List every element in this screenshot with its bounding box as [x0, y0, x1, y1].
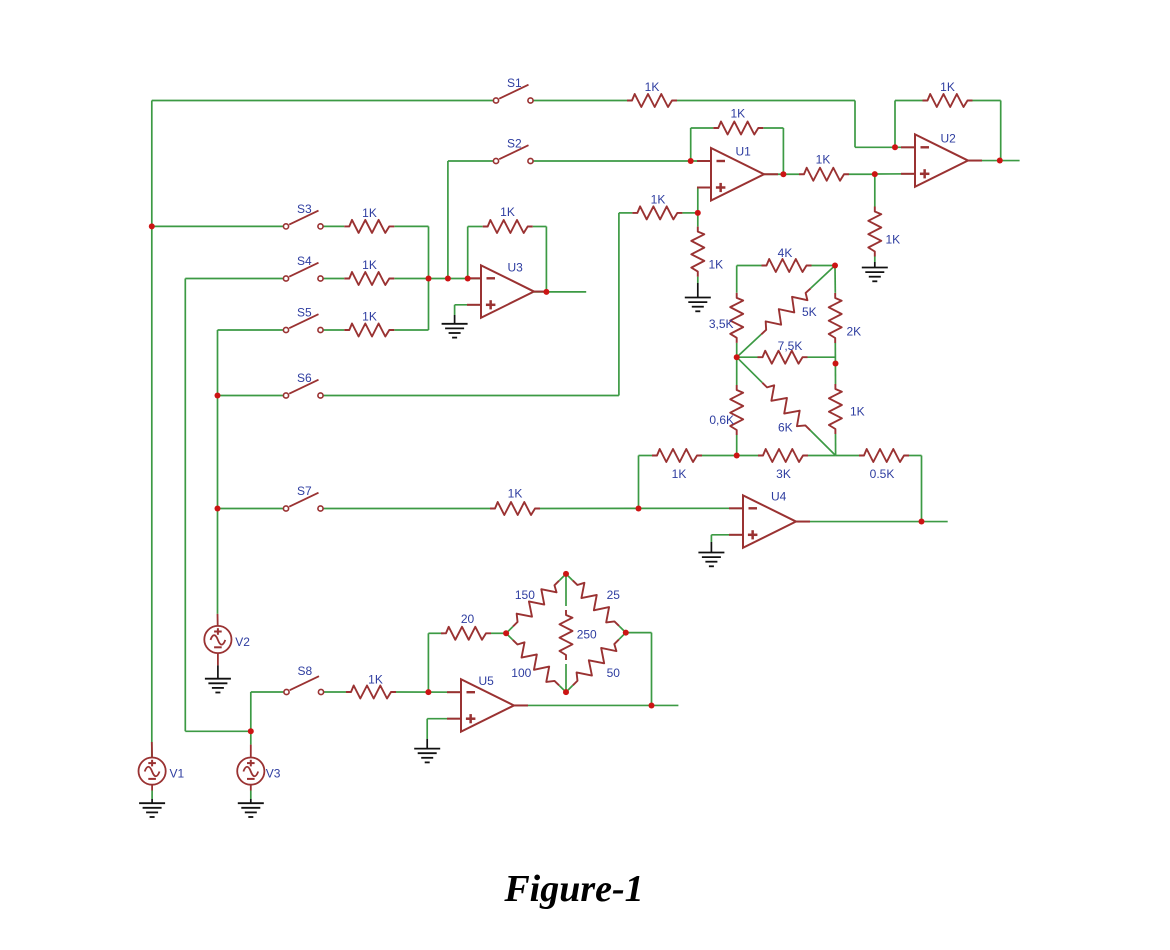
wire ladder mid row left: [737, 356, 758, 358]
wire 1K row left segment: [619, 212, 633, 214]
resistor 1K (S4 row): [344, 258, 394, 285]
wire U3 plus down to ground: [454, 305, 456, 315]
wire ladder left column bottom segment: [736, 435, 738, 456]
svg-text:V2: V2: [235, 635, 250, 649]
junction dot V3 node: [248, 728, 254, 734]
svg-text:1K: 1K: [368, 673, 383, 687]
switch S3: [283, 202, 323, 229]
junction dot bridge bottom node: [563, 689, 569, 695]
wire U1 output to 1K: [764, 173, 799, 175]
svg-text:1K: 1K: [709, 258, 724, 272]
wire S2 left segment to vertical: [448, 160, 494, 162]
junction dot ladder mid-right node: [833, 361, 839, 367]
svg-text:1K: 1K: [362, 258, 377, 272]
caption Figure-1: [503, 868, 643, 910]
op-amp U3: [467, 261, 548, 318]
wire S3 1K to corner: [394, 225, 428, 227]
resistor 25 (bridge upper-right): [566, 574, 626, 633]
junction dot U1 bias node: [695, 210, 701, 216]
svg-text:7,5K: 7,5K: [778, 339, 803, 353]
wire U1 bias junction to vertical 1K: [697, 213, 699, 227]
resistor 250 (bridge center): [560, 610, 598, 660]
resistor 1K (U1 output to U2): [799, 153, 849, 181]
voltage source V2: [204, 626, 250, 653]
junction dot U5 output node: [649, 702, 655, 708]
junction dot S6 tap on rail3: [215, 393, 221, 399]
wire into U2 minus junction: [855, 146, 895, 148]
wire U5 plus input left: [427, 718, 461, 720]
wire S8 row from corner: [251, 691, 284, 693]
wire V2 top red stub: [217, 614, 219, 626]
wire left rail vertical from S1 row down to V1: [151, 101, 153, 743]
junction dot U4 output node: [919, 519, 925, 525]
wire S2 vertical down to S4 node: [447, 161, 449, 279]
wire U2 feedback vertical up: [894, 101, 896, 148]
svg-text:5K: 5K: [802, 305, 817, 319]
svg-text:S4: S4: [297, 254, 312, 268]
op-amp U1: [697, 145, 778, 201]
wire S6 vertical rises to 1K row: [618, 213, 620, 396]
wire bridge corner down to U5 output: [651, 633, 653, 706]
junction dot S7 tap on rail3: [215, 506, 221, 512]
svg-text:0.5K: 0.5K: [870, 467, 895, 481]
svg-text:U2: U2: [941, 132, 957, 146]
resistor 1K (U2 bias): [868, 207, 900, 257]
ground at U5 plus input: [414, 739, 440, 762]
junction dot bridge right node: [623, 630, 629, 636]
voltage source V1: [139, 758, 185, 785]
wire ladder left column top segment: [736, 266, 738, 293]
junction dot ladder top-right node: [832, 263, 838, 269]
wire 1K resistor to corner above U2: [677, 100, 855, 102]
resistor 1K (S8 row): [346, 673, 396, 699]
resistor 1K (ladder right lower): [829, 384, 865, 434]
switch S8: [284, 664, 324, 695]
switch S5: [283, 306, 323, 333]
svg-text:1K: 1K: [940, 80, 955, 94]
switch S2: [493, 137, 533, 164]
wire ladder top row right: [812, 265, 836, 267]
resistor 1K (U1 bias): [691, 227, 723, 277]
wire S7 row from rail3 junction: [218, 508, 284, 510]
wire V1 ground green segment: [151, 791, 153, 800]
svg-text:3K: 3K: [776, 467, 791, 481]
junction dot S2 vertical at S4 row: [445, 276, 451, 282]
ground below V2: [205, 665, 231, 692]
svg-text:1K: 1K: [730, 107, 745, 121]
wire ladder mid row right: [808, 356, 836, 358]
junction dot U4 minus node: [636, 506, 642, 512]
wire U3 output to the right: [534, 291, 586, 293]
wire right corner down to U4 output: [921, 456, 923, 522]
wire U3 feedback top right segment: [533, 226, 547, 228]
wire 20 resistor row left: [428, 632, 443, 634]
op-amp U2: [901, 132, 982, 187]
svg-text:1K: 1K: [362, 206, 377, 220]
resistor 1K (U2 feedback): [923, 80, 973, 107]
switch S7: [283, 484, 323, 511]
wire S4 row from rail2: [185, 278, 283, 280]
wire S8 to 1K: [324, 691, 346, 693]
resistor 1K (S1 row): [627, 80, 677, 107]
resistor 150 (bridge upper-left): [506, 574, 566, 633]
wire ladder right column top segment: [834, 266, 836, 293]
resistor 100 (bridge lower-left): [506, 633, 566, 692]
svg-text:U3: U3: [508, 261, 524, 275]
wire U2 minus junction to op-amp: [895, 146, 915, 148]
junction dot U2 plus node: [872, 171, 878, 177]
resistor 2K (ladder right upper): [829, 293, 861, 343]
svg-text:S5: S5: [297, 306, 312, 320]
wire V1 top red stub: [151, 742, 153, 757]
wire V3 ground green segment: [250, 791, 252, 800]
svg-text:U4: U4: [771, 489, 787, 503]
wire S4 to 1K: [323, 278, 344, 280]
resistor 7,5K (ladder middle): [758, 339, 808, 364]
resistor 5K (ladder diagonal upper): [737, 266, 835, 358]
wire U2 plus junction down to bias resistor: [874, 174, 876, 206]
wire U2 feedback top left segment: [895, 100, 923, 102]
svg-text:U1: U1: [736, 145, 752, 159]
wire rail2 corner to V3 junction: [185, 730, 251, 732]
wire U2 plus junction to op-amp: [875, 173, 915, 175]
wire U3 feedback top left segment: [468, 226, 483, 228]
resistor 4K (ladder top): [762, 246, 812, 272]
wire U1 plus vertical down to bias junction: [697, 188, 699, 213]
wire U3 feedback vertical up: [467, 227, 469, 279]
junction dot U3 output: [543, 289, 549, 295]
svg-text:1K: 1K: [508, 487, 523, 501]
switch S1: [493, 76, 533, 103]
wire U1 bias 1K to ground: [697, 277, 699, 283]
svg-text:U5: U5: [479, 674, 495, 688]
resistor 1K (S7 row): [490, 487, 540, 516]
junction dot U5 minus node: [425, 689, 431, 695]
svg-text:0,6K: 0,6K: [709, 413, 734, 427]
resistor 20 (U5 input): [441, 612, 491, 640]
wire S3/S4/S5 vertical: [428, 226, 430, 330]
wire U2 feedback down to output: [1000, 101, 1002, 161]
svg-text:V1: V1: [170, 767, 185, 781]
wire U3 plus input left: [455, 304, 481, 306]
junction dot U1 output: [780, 171, 786, 177]
svg-text:Figure-1: Figure-1: [503, 868, 643, 910]
svg-text:4K: 4K: [778, 246, 793, 260]
wire S1 to 1K resistor: [533, 100, 627, 102]
wire V1 bottom red stub: [151, 785, 153, 791]
voltage source V3: [237, 758, 281, 785]
wire bridge 250 top lead: [565, 574, 567, 606]
junction dot U1 minus node: [688, 158, 694, 164]
junction dot ladder bottom-left node: [734, 453, 740, 459]
svg-text:1K: 1K: [850, 405, 865, 419]
wire ladder bottom row left: [639, 455, 653, 457]
svg-text:S7: S7: [297, 484, 312, 498]
svg-text:1K: 1K: [816, 153, 831, 167]
svg-text:2K: 2K: [847, 325, 862, 339]
wire S3 to 1K: [323, 225, 344, 227]
svg-text:1K: 1K: [672, 467, 687, 481]
junction dot ladder mid-left node: [734, 354, 740, 360]
wire U5 minus junction up to 20 resistor: [427, 633, 429, 692]
ground below V3: [238, 799, 264, 817]
svg-text:S8: S8: [298, 664, 313, 678]
wire V3 bottom red stub: [250, 785, 252, 791]
wire S1 row from left rail to S1: [152, 100, 494, 102]
wire between 3K and bottom-right node: [808, 455, 836, 457]
wire bridge 250 bottom lead: [565, 664, 567, 692]
ground below U2 bias resistor: [862, 262, 888, 281]
wire V3 top red stub: [250, 745, 252, 758]
switch S6: [283, 371, 323, 398]
junction dot S3 tap on left rail: [149, 223, 155, 229]
wire rail2 vertical: [184, 279, 186, 732]
resistor 1K (S5 row): [344, 310, 394, 337]
wire V2 bottom red stub: [217, 653, 219, 665]
wire bridge right node to corner: [626, 632, 652, 634]
ground at U3 plus input: [442, 315, 468, 338]
wire between 1K and 3K bottom row: [702, 455, 758, 457]
wire ladder left column mid segment: [736, 343, 738, 385]
resistor 0.5K (bottom row): [859, 449, 909, 481]
resistor 3K (bottom row): [758, 449, 808, 481]
wire U1 plus input to bias node: [698, 187, 711, 189]
wire U2 feedback top right segment: [973, 100, 1001, 102]
wire ladder right column mid segment: [834, 343, 836, 384]
wire U1 feedback down to output: [782, 128, 784, 174]
wire ladder top row left: [737, 265, 762, 267]
wire S7 to 1K: [323, 508, 490, 510]
switch S4: [283, 254, 323, 281]
wire S5 to 1K: [323, 329, 344, 331]
svg-text:1K: 1K: [362, 310, 377, 324]
resistor 1K (S3 row): [344, 206, 394, 233]
resistor 1K (U1 feedback): [713, 107, 763, 135]
wire ladder right column bottom segment: [835, 434, 837, 456]
wire S7 1K to U4 minus junction: [540, 507, 743, 509]
wire 20 resistor to bridge left node: [491, 632, 506, 634]
junction dot S3-S4 vertical crossing: [426, 276, 432, 282]
svg-text:250: 250: [577, 628, 597, 642]
svg-text:S2: S2: [507, 137, 522, 151]
svg-text:V3: V3: [266, 767, 281, 781]
ground below V1: [139, 799, 165, 817]
resistor 1K (U3 feedback): [483, 205, 533, 233]
junction dot U2 minus node: [892, 144, 898, 150]
wire rail3 vertical down to V2: [217, 330, 219, 614]
junction dot U3 minus node: [465, 276, 471, 282]
resistor 1K (bottom row): [652, 449, 702, 481]
wire S6 to long horizontal: [323, 395, 619, 397]
svg-text:100: 100: [511, 666, 531, 680]
wire S6 row from rail3 junction: [218, 395, 284, 397]
wire S8 1K to U5 minus junction: [396, 691, 461, 693]
junction dot U2 output: [997, 158, 1003, 164]
wire 1K to U2 plus junction: [849, 173, 875, 175]
junction dot bridge top node: [563, 571, 569, 577]
wire U4 minus junction up to ladder bottom row: [638, 456, 640, 509]
op-amp U4: [729, 489, 810, 548]
wire U1 feedback top left segment: [691, 127, 714, 129]
ground below U1 bias resistor: [685, 283, 711, 311]
wire S3 row from left rail: [152, 225, 284, 227]
resistor 50 (bridge lower-right): [566, 633, 626, 693]
wire V3 junction down to source: [250, 731, 252, 744]
resistor 1K (S6 feed row): [632, 193, 682, 220]
svg-text:1K: 1K: [645, 80, 660, 94]
svg-text:6K: 6K: [778, 421, 793, 435]
wire U4 plus down to ground: [710, 535, 712, 542]
wire U1 feedback vertical up: [690, 128, 692, 161]
svg-text:50: 50: [607, 666, 621, 680]
op-amp U5: [447, 674, 528, 732]
wire S5 row from rail3 corner: [218, 329, 284, 331]
wire U4 output right: [796, 521, 948, 523]
wire U5 plus down to ground: [426, 719, 428, 739]
wire S4 1K to U3 minus junction: [394, 278, 481, 280]
wire U2 bias resistor to ground: [874, 257, 876, 263]
wire bottom-right node to 0.5K: [836, 455, 859, 457]
wire 1K row right segment to bias junction: [682, 212, 697, 214]
svg-text:20: 20: [461, 612, 475, 626]
wire S2 to U1 minus junction: [533, 160, 697, 162]
svg-text:25: 25: [607, 588, 621, 602]
svg-text:3,5K: 3,5K: [709, 317, 734, 331]
wire S5 1K to vertical: [394, 329, 428, 331]
wire corner down toward U2 minus level: [854, 101, 856, 148]
junction dot bridge left node: [503, 630, 509, 636]
wire U2 output to the right: [968, 160, 1020, 162]
resistor 0,6K (ladder left lower): [709, 385, 743, 435]
svg-text:1K: 1K: [886, 233, 901, 247]
resistor 6K (ladder diagonal lower): [737, 357, 836, 455]
resistor 3,5K (ladder left upper): [709, 293, 743, 343]
wire U4 plus input left: [711, 534, 743, 536]
svg-text:S3: S3: [297, 202, 312, 216]
svg-text:1K: 1K: [651, 193, 666, 207]
ground at U4 plus input: [698, 542, 724, 566]
wire U5 output right: [514, 704, 678, 706]
wire U1 feedback top right segment: [763, 127, 783, 129]
svg-text:S6: S6: [297, 371, 312, 385]
svg-text:S1: S1: [507, 76, 522, 90]
wire U3 feedback down to output: [545, 227, 547, 292]
svg-text:1K: 1K: [500, 205, 515, 219]
svg-text:150: 150: [515, 588, 535, 602]
wire 0.5K to right corner: [909, 455, 922, 457]
wire V1 red stub: [151, 742, 153, 758]
wire V3 junction up to S8 row: [250, 692, 252, 731]
